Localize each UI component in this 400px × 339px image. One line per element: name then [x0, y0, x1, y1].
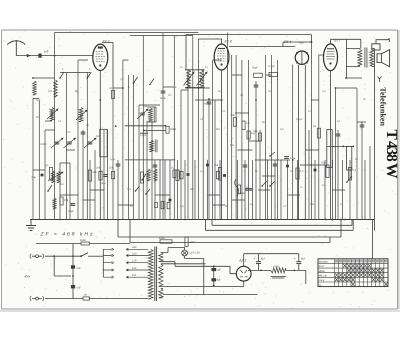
switch S6: [270, 181, 275, 186]
wire B+ line: [248, 270, 306, 284]
resistor 1M horizontal: [81, 242, 90, 245]
svg-text:2x500: 2x500: [40, 143, 47, 146]
resistor R2: [233, 118, 236, 127]
wire speaker frame: [374, 67, 376, 231]
wire mid h2: [139, 88, 222, 105]
switch S3: [134, 77, 138, 83]
variable capacitor C-osc: [140, 112, 145, 114]
svg-text:50μF: 50μF: [160, 97, 166, 100]
svg-text:0,5: 0,5: [120, 78, 124, 81]
svg-text:Mittel: Mittel: [319, 270, 325, 273]
oscillator coil with core: [149, 108, 153, 121]
wire det line: [282, 42, 284, 47]
junction caps: [213, 265, 215, 267]
wire mains drop: [54, 256, 71, 276]
wire tube V1 leads: [99, 70, 101, 219]
field coil Feld: [271, 268, 286, 273]
capacitor 8uF first: [258, 254, 260, 262]
resistor 1M3 vertical: [185, 237, 188, 247]
svg-text:0,3: 0,3: [300, 170, 304, 173]
wire B+ top: [259, 253, 299, 255]
capacitor blob C3d: [187, 173, 190, 176]
coil L2: [54, 80, 58, 97]
svg-text:1nF: 1nF: [44, 50, 49, 54]
wire heater 1: [163, 286, 244, 288]
wire tube V2 cathode: [221, 70, 223, 220]
svg-text:500: 500: [96, 135, 101, 138]
svg-text:Mit.Lab: Mit.Lab: [319, 274, 328, 277]
wire tube V4 cathode: [330, 71, 332, 220]
resistor R24: [167, 203, 170, 209]
power transformer primary: [148, 249, 153, 299]
switch S11: [146, 189, 150, 194]
svg-text:50k: 50k: [93, 171, 98, 174]
svg-text:1M: 1M: [268, 90, 271, 93]
wire top bus 3: [186, 35, 311, 70]
headphone jack Y: [378, 77, 382, 83]
svg-text:0,1μF: 0,1μF: [140, 134, 147, 137]
switch S7: [347, 176, 352, 182]
wire screen feed: [346, 39, 348, 78]
junction: [310, 41, 312, 43]
svg-text:0,5: 0,5: [145, 173, 149, 176]
svg-text:40W: 40W: [24, 275, 30, 279]
svg-text:1M: 1M: [254, 130, 258, 133]
svg-text:0,1μF: 0,1μF: [296, 118, 303, 121]
ground symbol: [26, 220, 36, 231]
svg-text:0,1: 0,1: [313, 125, 317, 128]
capacitor C1d: [207, 101, 212, 103]
svg-text:1MΩ: 1MΩ: [159, 237, 165, 240]
svg-text:50μ: 50μ: [101, 182, 106, 185]
svg-text:0,2: 0,2: [283, 205, 287, 208]
coil pair L7 crossed: [51, 171, 54, 182]
svg-text:C 6a: C 6a: [290, 157, 296, 160]
tube V2 EF8 envelope: [214, 44, 229, 70]
mains plug bottom: [32, 298, 50, 300]
svg-text:AZ 1: AZ 1: [238, 259, 246, 263]
resistor R6: [49, 168, 52, 181]
resistor R13: [176, 170, 179, 181]
fuse 1A: [83, 297, 90, 300]
antenna: [8, 41, 24, 44]
svg-text:50μ: 50μ: [32, 176, 37, 179]
voltage selector contacts right: [126, 248, 148, 250]
capacitor blob C2d: [314, 169, 317, 172]
svg-text:0,1: 0,1: [45, 164, 49, 167]
resistor R22: [155, 203, 158, 208]
svg-text:220: 220: [132, 252, 137, 255]
tube V5 internals: [240, 270, 248, 277]
scan speckle texture: [3, 31, 396, 307]
svg-text:5nF: 5nF: [77, 267, 82, 270]
tall box P3: [346, 146, 351, 170]
svg-text:0,2: 0,2: [171, 167, 175, 170]
capacitor blob C2a: [206, 164, 209, 167]
tall box P2: [327, 130, 332, 168]
output transformer secondary: [370, 50, 374, 66]
wire output transformer bottom: [346, 66, 375, 67]
wire s-loop: [235, 179, 239, 197]
svg-text:0,1: 0,1: [240, 94, 244, 97]
resistor 1M2 horizontal: [160, 240, 172, 243]
svg-text:5nF: 5nF: [77, 287, 82, 290]
wire tube V1 grid cap: [102, 43, 113, 89]
wire mains L2: [50, 298, 83, 300]
switch S12: [48, 185, 52, 191]
wire tube V2 grid cap: [198, 39, 221, 44]
tube V3 pins: [296, 51, 307, 64]
wire HT mid: [163, 263, 206, 265]
wire mains L1: [50, 255, 81, 257]
IF transformer IF1a: [50, 108, 54, 121]
resistor R9: [218, 168, 221, 181]
switch mains: [81, 253, 88, 257]
capacitor C3c: [103, 174, 108, 176]
svg-text:25kΩ: 25kΩ: [239, 192, 245, 195]
wire grid return2: [90, 243, 131, 245]
power transformer secondary 1: [159, 252, 163, 261]
power transformer core: [155, 247, 157, 302]
svg-text:200: 200: [48, 90, 53, 93]
switch S1: [60, 72, 64, 78]
svg-text:0,3: 0,3: [246, 122, 250, 125]
wire mesh segs: [33, 60, 366, 205]
trimmer arrow IF2a: [184, 72, 195, 86]
capacitor 8uF second: [298, 254, 300, 262]
wire sec leads: [161, 252, 163, 298]
capacitor C6b: [245, 188, 249, 190]
resistor R19: [173, 170, 176, 178]
oscillator coil 2 with core: [150, 140, 154, 151]
coil L6: [53, 198, 56, 209]
svg-text:3nF: 3nF: [36, 99, 41, 102]
switch S5: [262, 181, 267, 186]
tube V4 internals: [326, 52, 335, 60]
wire return to table: [371, 220, 373, 260]
svg-text:Telefunken: Telefunken: [379, 87, 388, 126]
capacitor C1c: [161, 90, 166, 92]
IF transformer IF2a: [187, 70, 191, 88]
svg-text:0,1: 0,1: [222, 110, 226, 113]
electrolytic cap small: [213, 266, 215, 285]
wire mid h4: [319, 55, 353, 146]
capacitor blob 5nF b: [71, 285, 75, 288]
capacitor C3a: [71, 203, 76, 205]
svg-text:50k: 50k: [231, 114, 236, 117]
svg-text:+: +: [254, 257, 256, 261]
wire mid h3: [123, 60, 290, 160]
svg-text:0,3: 0,3: [322, 90, 326, 93]
svg-text:Lang: Lang: [319, 279, 325, 282]
speaker magnet box: [372, 44, 380, 50]
capacitor C 0.1uF: [269, 72, 278, 76]
output transformer primary: [358, 50, 362, 66]
wire heater 2: [163, 294, 258, 296]
switch S10: [136, 186, 140, 191]
capacitor C1j: [243, 164, 248, 166]
wire AVC line: [283, 41, 311, 43]
wire AZ1 filament down: [243, 281, 245, 286]
svg-text:600μ: 600μ: [204, 103, 210, 106]
capacitor C1a: [81, 131, 86, 133]
junction B+: [260, 270, 262, 272]
junction dots bus right: [325, 219, 327, 221]
capacitor C1f: [273, 163, 278, 165]
resistor R23: [161, 201, 164, 209]
wire chassis bus: [30, 219, 375, 221]
power transformer secondary 3: [159, 289, 163, 298]
wire return 2: [206, 220, 354, 231]
svg-text:50μF: 50μF: [252, 67, 258, 70]
tube V1 internals: [98, 46, 103, 48]
wire EB feed: [229, 46, 295, 48]
resistor R15: [166, 126, 169, 133]
wire speaker magnet: [376, 38, 390, 44]
resistor R16: [60, 197, 63, 205]
junction m1: [72, 255, 74, 257]
svg-text:0,1: 0,1: [250, 203, 254, 206]
wire return 4: [130, 220, 330, 243]
resistor R8: [140, 172, 143, 183]
variable capacitor C-tune2: [67, 141, 72, 143]
svg-text:8μF: 8μF: [217, 269, 222, 272]
svg-text:25k: 25k: [214, 164, 219, 167]
resistor R7: [88, 170, 91, 181]
switch S4: [150, 79, 154, 85]
IF transformer IF1b: [79, 108, 83, 122]
coil pair L5: [147, 169, 150, 181]
capacitor C1h: [360, 124, 365, 126]
resistor R4: [247, 131, 250, 139]
power transformer secondary 2: [159, 264, 163, 287]
svg-text:87k: 87k: [64, 199, 69, 202]
capacitor blob C3b: [41, 174, 44, 177]
trimmer arrow IF1a: [47, 109, 58, 119]
svg-text:110: 110: [132, 274, 137, 277]
voltage selector contacts left: [103, 248, 114, 250]
wire lamp feed: [163, 248, 185, 253]
table header cells: [335, 260, 337, 263]
svg-text:0,1: 0,1: [337, 120, 341, 123]
wire mid h1: [33, 73, 90, 164]
svg-text:0,1μ: 0,1μ: [110, 158, 115, 161]
table X marks: [343, 264, 346, 268]
dial lamp 6.3V: [182, 250, 188, 256]
variable capacitor C-tune3: [88, 141, 93, 143]
svg-text:0,1: 0,1: [109, 87, 113, 90]
switch S13: [270, 152, 275, 156]
svg-text:1MΩ: 1MΩ: [190, 241, 196, 244]
svg-text:6,3V 0,3A: 6,3V 0,3A: [189, 252, 201, 255]
resistor R11: [348, 168, 351, 181]
junction dots: [343, 146, 345, 148]
wire cap stack: [72, 244, 74, 299]
resistor R25: [237, 185, 240, 194]
resistor R18: [111, 171, 114, 179]
trimmer arrow IF2b: [197, 72, 208, 86]
svg-text:U₂: U₂: [319, 284, 322, 287]
svg-text:0,1μF: 0,1μF: [269, 65, 276, 68]
svg-text:50kΩ: 50kΩ: [170, 128, 176, 131]
wire AZ1 cathode up: [244, 254, 259, 267]
svg-text:0,1: 0,1: [353, 169, 357, 172]
wire grid return: [36, 243, 81, 245]
resistor R5: [317, 128, 320, 138]
svg-text:0,3: 0,3: [127, 188, 131, 191]
svg-text:50k: 50k: [321, 162, 326, 165]
switch S2: [87, 72, 91, 78]
svg-text:1M: 1M: [60, 183, 63, 186]
tube V4 EL7 envelope: [324, 44, 338, 71]
wire tube V4 plate to output transformer: [331, 39, 361, 48]
svg-text:0,1: 0,1: [322, 184, 326, 187]
wire return 1: [212, 220, 352, 226]
svg-text:0,2: 0,2: [168, 94, 172, 97]
capacitor C 50uF: [254, 73, 263, 77]
svg-text:240: 240: [132, 246, 137, 249]
svg-text:+: +: [294, 257, 296, 261]
wire tube V3 leads: [299, 65, 306, 220]
capacitor C1i: [153, 164, 158, 166]
svg-text:0,5: 0,5: [280, 128, 284, 131]
capacitor C6a: [284, 156, 289, 158]
svg-text:8μF: 8μF: [301, 258, 306, 261]
svg-text:1MΩ: 1MΩ: [80, 239, 86, 242]
svg-text:EF 8: EF 8: [225, 39, 232, 43]
capacitor C1g: [336, 133, 341, 135]
svg-text:50μF: 50μF: [68, 210, 74, 213]
wire AZ1 anode feed: [163, 262, 236, 274]
svg-text:Kurz: Kurz: [319, 265, 325, 268]
mains plug top: [32, 255, 50, 257]
wire output transformer top: [346, 49, 375, 50]
wire top bus 2: [130, 35, 193, 37]
switch S9: [142, 174, 146, 180]
voltage selector bracket: [102, 249, 104, 277]
resistor R10: [326, 165, 329, 178]
wire return 3: [118, 220, 341, 238]
capacitor blob 5nF a: [71, 265, 75, 268]
resistor R20: [180, 171, 183, 179]
resistor R12: [258, 133, 261, 141]
capacitor C1b: [116, 163, 121, 165]
output transformer core: [365, 48, 367, 68]
tube V3 EB4 envelope: [295, 51, 308, 64]
svg-text:ZF = 468 kHz: ZF = 468 kHz: [40, 231, 94, 237]
tall box P1 (potentiometer): [100, 129, 107, 157]
svg-text:Schalter: Schalter: [319, 261, 328, 264]
wire mains to selector: [88, 255, 103, 257]
svg-text:8μF: 8μF: [261, 258, 266, 261]
capacitor blob C3e: [223, 174, 226, 177]
resistor R17: [99, 171, 102, 180]
wire vertical bus group: [33, 33, 370, 220]
IF transformer IF2b: [200, 70, 204, 88]
svg-text:0,1: 0,1: [246, 186, 250, 189]
svg-text:T 438 W: T 438 W: [383, 130, 400, 180]
capacitor C1e: [254, 84, 259, 86]
wire antenna lead: [16, 55, 93, 57]
svg-text:50μ: 50μ: [143, 105, 148, 108]
capacitor blob C2b: [286, 165, 289, 168]
svg-text:1A: 1A: [84, 294, 87, 297]
trimmer arrow IF1b: [76, 110, 87, 120]
wire mains L2b: [90, 298, 149, 300]
wire lamp return: [185, 256, 204, 295]
capacitor blob C2c: [169, 199, 172, 202]
svg-text:8μF: 8μF: [217, 279, 222, 282]
resistor R1: [111, 91, 114, 99]
svg-text:0,1: 0,1: [58, 120, 62, 123]
svg-text:0,1: 0,1: [200, 170, 204, 173]
resistor R14: [296, 168, 299, 179]
table grid: [318, 259, 388, 287]
speaker LS: [377, 50, 390, 67]
svg-text:0,5: 0,5: [180, 205, 184, 208]
resistor R21: [216, 171, 219, 179]
coil antenna L1: [33, 81, 37, 95]
tube V2 internals: [217, 51, 226, 61]
svg-text:10k: 10k: [109, 167, 114, 170]
wire bottom left long: [162, 297, 164, 299]
field coil underline: [270, 277, 286, 278]
wire top bus 1: [55, 32, 199, 34]
junction dots on bus: [59, 219, 61, 221]
tube V1 EF2 envelope: [93, 44, 108, 70]
capacitor C6c: [249, 188, 253, 190]
resistor R3: [242, 121, 245, 130]
tube V5 AZ1 envelope: [236, 266, 251, 281]
variable capacitor C-tune1: [55, 141, 60, 143]
capacitor 1nF (antenna blob): [38, 54, 41, 58]
svg-text:150: 150: [132, 260, 137, 263]
arrow on antenna wire: [27, 54, 30, 57]
svg-text:125: 125: [132, 267, 137, 270]
